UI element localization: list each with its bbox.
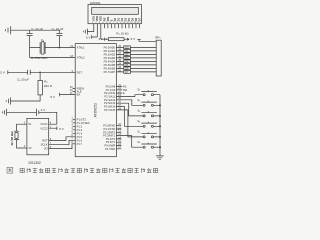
- svg-text:DS1302: DS1302: [29, 161, 41, 165]
- crystal X2 32.768kHz: [14, 124, 27, 148]
- svg-text:P1.1/T2EX: P1.1/T2EX: [77, 121, 90, 125]
- wire P2.5 to S3: [116, 103, 143, 116]
- svg-text:P2.0/A8: P2.0/A8: [106, 84, 116, 88]
- reset capacitor C3: [8, 70, 75, 75]
- switch labels S1-S6: [137, 87, 141, 144]
- svg-text:VDD: VDD: [95, 16, 99, 22]
- stubs P3 rows: [116, 126, 121, 149]
- svg-text:P3.7/RD: P3.7/RD: [105, 147, 115, 151]
- node RST: [39, 72, 41, 74]
- svg-text:VCC2: VCC2: [40, 126, 48, 130]
- wire XTAL2: [30, 57, 76, 59]
- resistor R2: [11, 72, 43, 101]
- ground below R2: [6, 97, 10, 104]
- capacitor C2: [56, 30, 62, 47]
- svg-text:P1.6: P1.6: [77, 138, 83, 142]
- left pin stubs PSEN ALE: [73, 88, 76, 91]
- DS1302 pin numbers: [24, 121, 52, 149]
- svg-text:32.768 kHz: 32.768 kHz: [10, 131, 14, 146]
- svg-text:RST: RST: [42, 139, 48, 143]
- svg-text:D2: D2: [120, 17, 124, 21]
- power 5V to VCC2: [49, 126, 57, 130]
- switch S5: [141, 132, 160, 138]
- svg-text:P1.4: P1.4: [77, 131, 83, 135]
- caption: [7, 167, 158, 173]
- svg-text:P1.0/T2: P1.0/T2: [77, 117, 87, 121]
- LCD pin numbers 1-14: [92, 22, 140, 24]
- MCU U1 AT89C52: [75, 44, 116, 157]
- svg-text:P0.3/AD3: P0.3/AD3: [104, 56, 116, 60]
- switch S1: [141, 90, 160, 96]
- svg-text:P0.0/AD0: P0.0/AD0: [104, 45, 116, 49]
- DS1302 pin names: [28, 122, 32, 150]
- switch S2: [141, 101, 160, 107]
- svg-text:S6: S6: [137, 140, 141, 144]
- svg-text:P0.7/AD7: P0.7/AD7: [104, 70, 116, 74]
- svg-text:I/O: I/O: [44, 147, 48, 151]
- svg-text:5 V: 5 V: [99, 37, 103, 41]
- svg-text:P0.2/AD2: P0.2/AD2: [104, 52, 116, 56]
- svg-text:C2 22 pF: C2 22 pF: [52, 27, 64, 32]
- wire P2.7 to S5: [116, 110, 143, 137]
- svg-text:P0.5/AD5: P0.5/AD5: [104, 63, 116, 67]
- node XTAL1 junction: [59, 47, 61, 49]
- capacitor C1: [27, 30, 33, 57]
- resistor pack RP1: [137, 39, 161, 76]
- DS1302 U2: [27, 118, 49, 154]
- LCD pin stubs 1-14: [94, 24, 140, 40]
- svg-text:11.0592 MHz: 11.0592 MHz: [30, 56, 48, 60]
- wire P2.4 to S2: [116, 100, 143, 106]
- wire P2.3 to S1: [116, 95, 143, 97]
- power 5V to EA: [60, 93, 76, 97]
- svg-text:EA: EA: [77, 93, 81, 97]
- P2.0-P2.2 stubs to RS RW E labels: [116, 86, 122, 93]
- svg-text:5 V: 5 V: [59, 127, 64, 131]
- svg-text:XTAL1: XTAL1: [77, 46, 86, 50]
- P0 pin rows with wires to RP: [116, 47, 156, 72]
- svg-text:S2: S2: [137, 98, 141, 102]
- svg-text:P2.2/A10: P2.2/A10: [104, 91, 116, 95]
- svg-text:S4: S4: [137, 119, 141, 123]
- wire P2.6 to S4: [116, 107, 143, 127]
- svg-text:5 V: 5 V: [131, 37, 136, 41]
- ground below switches: [156, 155, 164, 160]
- svg-text:D0: D0: [113, 17, 117, 21]
- svg-text:5 V: 5 V: [50, 95, 55, 99]
- MCU pin numbers: [70, 45, 122, 149]
- svg-text:P2.6/A14: P2.6/A14: [104, 105, 116, 109]
- MCU pin names: [77, 46, 90, 146]
- svg-text:X2: X2: [28, 146, 32, 150]
- svg-text:P2.7/A15: P2.7/A15: [104, 108, 116, 112]
- svg-text:P1.5: P1.5: [77, 135, 83, 139]
- ground at LCD VSS: [83, 29, 93, 35]
- svg-text:3 V: 3 V: [41, 108, 46, 112]
- svg-text:P1.2: P1.2: [77, 124, 83, 128]
- switch S6: [141, 143, 160, 149]
- svg-text:P1.7: P1.7: [77, 142, 83, 146]
- svg-text:5 V: 5 V: [0, 71, 5, 75]
- svg-text:S1: S1: [137, 87, 141, 91]
- svg-text:P0.4/AD4: P0.4/AD4: [104, 59, 116, 63]
- svg-text:SCLK: SCLK: [41, 143, 48, 147]
- svg-text:D3: D3: [123, 17, 127, 21]
- svg-text:XTAL2: XTAL2: [77, 56, 86, 60]
- wire DS1302 RST to P1.5: [49, 137, 75, 141]
- wire P3.3 to S6: [116, 136, 143, 148]
- resistor R1: [101, 38, 130, 41]
- power 5V to LCD VDD: [92, 35, 98, 39]
- svg-text:RS: RS: [102, 17, 106, 21]
- wire: [11, 29, 60, 31]
- svg-text:5 V: 5 V: [86, 36, 91, 40]
- svg-text:R1 10 kΩ: R1 10 kΩ: [116, 32, 129, 37]
- net label boxes D0-D7: [124, 46, 131, 73]
- left pin stubs P1.0-P1.4: [73, 119, 76, 133]
- svg-text:P0.1/AD1: P0.1/AD1: [104, 49, 116, 53]
- svg-text:RW: RW: [106, 16, 110, 21]
- switch S4: [141, 122, 160, 128]
- svg-text:VEE: VEE: [99, 16, 103, 21]
- svg-text:S3: S3: [137, 109, 141, 113]
- svg-text:P0.6/AD6: P0.6/AD6: [104, 66, 116, 70]
- svg-text:P2.4/A12: P2.4/A12: [104, 98, 116, 102]
- svg-text:RP1: RP1: [155, 36, 161, 41]
- svg-text:D4: D4: [127, 17, 131, 21]
- wire switches common: [159, 95, 161, 156]
- LCD LM016L: [88, 5, 141, 24]
- crystal X1: [30, 42, 76, 55]
- svg-text:P1.3: P1.3: [77, 128, 83, 132]
- svg-text:E: E: [123, 92, 125, 95]
- svg-text:D5: D5: [130, 17, 134, 21]
- svg-text:VSS: VSS: [92, 16, 96, 21]
- svg-text:D6: D6: [134, 17, 138, 21]
- svg-text:AT89C52: AT89C52: [93, 103, 97, 118]
- LCD pin names vertical: [92, 16, 142, 22]
- net labels D0-D7: [123, 46, 129, 95]
- wire DS1302 IO to P1.7: [49, 144, 75, 149]
- svg-text:RST: RST: [77, 70, 83, 74]
- switch common junction dots: [159, 105, 160, 148]
- wire DS1302 SCLK to P1.6: [49, 140, 75, 144]
- svg-text:S5: S5: [137, 130, 141, 134]
- battery B1 3V: [3, 109, 57, 125]
- svg-text:VCC1: VCC1: [40, 122, 48, 126]
- svg-text:D7: D7: [138, 17, 142, 21]
- svg-text:C1 22 pF: C1 22 pF: [31, 27, 43, 32]
- svg-text:X1: X1: [28, 122, 32, 126]
- node VEE-R1: [106, 39, 107, 40]
- switch S3: [141, 111, 160, 117]
- ground: [5, 26, 10, 34]
- svg-text:LM016L: LM016L: [90, 1, 101, 5]
- svg-text:C3 20 µF: C3 20 µF: [17, 78, 29, 83]
- svg-text:E: E: [109, 19, 113, 21]
- svg-text:D1: D1: [116, 17, 120, 21]
- svg-text:200 Ω: 200 Ω: [44, 84, 53, 88]
